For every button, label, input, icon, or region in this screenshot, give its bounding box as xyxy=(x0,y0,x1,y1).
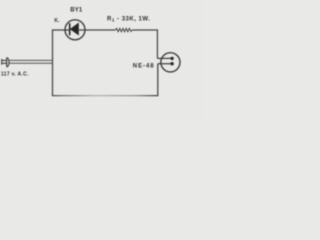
svg-text:117 v. A.C.: 117 v. A.C. xyxy=(1,71,29,77)
wire resistor to top-right corner xyxy=(132,29,157,31)
wire left rail xyxy=(52,29,54,96)
resistor R1 zigzag xyxy=(116,28,133,31)
svg-text:R1 - 33K, 1W.: R1 - 33K, 1W. xyxy=(107,16,150,22)
plug upper prong xyxy=(2,59,7,61)
plug upper prong end cap xyxy=(1,59,3,62)
plug lower prong xyxy=(2,62,7,64)
lamp NE-48 upper electrode xyxy=(157,57,171,59)
wire bottom rail xyxy=(53,95,159,97)
svg-text:K.: K. xyxy=(54,18,60,24)
plug lower prong end cap xyxy=(1,62,3,65)
lamp NE-48 upper electrode tip dot xyxy=(170,57,173,60)
diode BY1 circle xyxy=(65,20,85,40)
wire diode to resistor xyxy=(79,29,116,31)
line cord lower conductor xyxy=(9,62,52,64)
plug body xyxy=(7,58,9,67)
diode BY1 cathode bar xyxy=(69,23,71,35)
wire right rail upper xyxy=(156,29,158,58)
line cord upper conductor xyxy=(9,59,52,61)
diode BY1 triangle xyxy=(70,23,78,35)
lamp NE-48 envelope circle xyxy=(161,53,180,72)
svg-text:BY1: BY1 xyxy=(70,8,83,14)
lamp NE-48 lower electrode tip dot xyxy=(170,62,173,65)
paper background xyxy=(0,0,203,119)
svg-text:NE-48: NE-48 xyxy=(133,64,155,70)
wire from cathode bar through circle left xyxy=(66,29,70,31)
lamp NE-48 lower electrode xyxy=(158,63,171,65)
wire right rail lower xyxy=(157,64,159,96)
wire top-left (from left rail to diode) xyxy=(53,29,66,31)
